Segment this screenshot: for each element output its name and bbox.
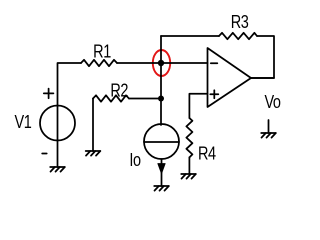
wire op-amp noninverting input to R4	[189, 94, 207, 118]
svg-text:R2: R2	[110, 81, 128, 101]
wire op-amp output	[251, 77, 274, 79]
label V1	[15, 112, 32, 132]
svg-text:Vo: Vo	[264, 92, 280, 112]
wire feedback top to R3	[161, 35, 219, 37]
op-amp U1	[208, 48, 252, 107]
resistor R4	[186, 118, 192, 157]
wire R3 to op-amp output	[251, 36, 274, 78]
node A red highlight	[153, 50, 170, 76]
svg-text:Io: Io	[129, 150, 141, 170]
ground below V1	[50, 167, 65, 172]
current source Io	[144, 124, 179, 159]
wire V1 bottom to ground	[57, 140, 59, 167]
svg-text:V1: V1	[15, 112, 32, 132]
op-amp inverting input marker	[211, 62, 218, 64]
resistor R3	[219, 33, 257, 39]
resistor R2	[93, 95, 129, 101]
wire R4 bottom to ground	[188, 157, 190, 174]
ground below R4	[181, 174, 196, 179]
junction node B	[158, 96, 164, 102]
svg-text:R3: R3	[231, 12, 249, 32]
resistor R1	[81, 60, 117, 66]
label R1	[93, 42, 111, 62]
svg-text:R4: R4	[198, 144, 216, 164]
junction node A	[158, 60, 164, 66]
V1 minus sign	[42, 153, 47, 155]
voltage source V1	[40, 106, 75, 141]
V1 plus sign	[44, 89, 54, 99]
label R3	[231, 12, 249, 32]
wire R2 to node B	[129, 98, 161, 100]
ground below R2	[86, 151, 101, 156]
label Io	[129, 150, 141, 170]
ground for Vo reference	[261, 120, 276, 138]
wire R2 left lead to ground	[92, 99, 94, 152]
label R4	[198, 144, 216, 164]
wire Io bottom to ground with arrow	[158, 159, 165, 186]
wire R1 to op-amp inverting input through node A	[117, 62, 208, 64]
ground below Io	[154, 186, 169, 191]
svg-text:R1: R1	[93, 42, 111, 62]
label Vo	[264, 92, 280, 112]
wire V1 top to R1	[58, 63, 82, 106]
label R2	[110, 81, 128, 101]
wire node A vertical: feedback corner down to Io	[160, 36, 162, 125]
op-amp noninverting input marker	[210, 90, 218, 98]
